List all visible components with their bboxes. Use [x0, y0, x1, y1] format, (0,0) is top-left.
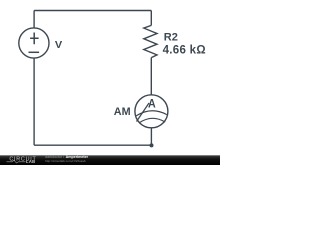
svg-text:4.66 kΩ: 4.66 kΩ: [163, 45, 206, 57]
svg-text:V: V: [55, 40, 63, 51]
ammeter scale arc outer: [136, 111, 167, 116]
resistor R2 zigzag: [144, 25, 157, 57]
svg-text:http://circuitlab.com/c7a5caab: http://circuitlab.com/c7a5caab: [45, 159, 86, 163]
wire right top lead (to resistor): [150, 11, 152, 26]
CircuitLab logo squiggle: [7, 160, 26, 163]
wire bottom horizontal: [34, 144, 151, 146]
wire top horizontal: [34, 10, 151, 12]
ammeter needle: [137, 103, 150, 122]
svg-text:LAB: LAB: [26, 159, 35, 164]
watermark black bar: [0, 155, 220, 165]
node junction dot: [150, 143, 154, 147]
ammeter scale arc inner: [139, 118, 165, 123]
wire right bottom (ammeter to junction): [150, 128, 152, 145]
voltage source V circle: [19, 28, 49, 58]
svg-text:A: A: [148, 96, 156, 110]
ammeter AM circle: [135, 95, 168, 128]
voltage source plus sign: [30, 33, 38, 45]
svg-text:AM: AM: [114, 106, 131, 118]
voltage source minus sign: [29, 51, 40, 53]
wire left vertical top lead of V: [33, 11, 35, 28]
wire left vertical bottom (V to bottom corner): [33, 58, 35, 145]
wire right middle (resistor to ammeter): [150, 58, 152, 95]
svg-text:R2: R2: [164, 32, 178, 44]
